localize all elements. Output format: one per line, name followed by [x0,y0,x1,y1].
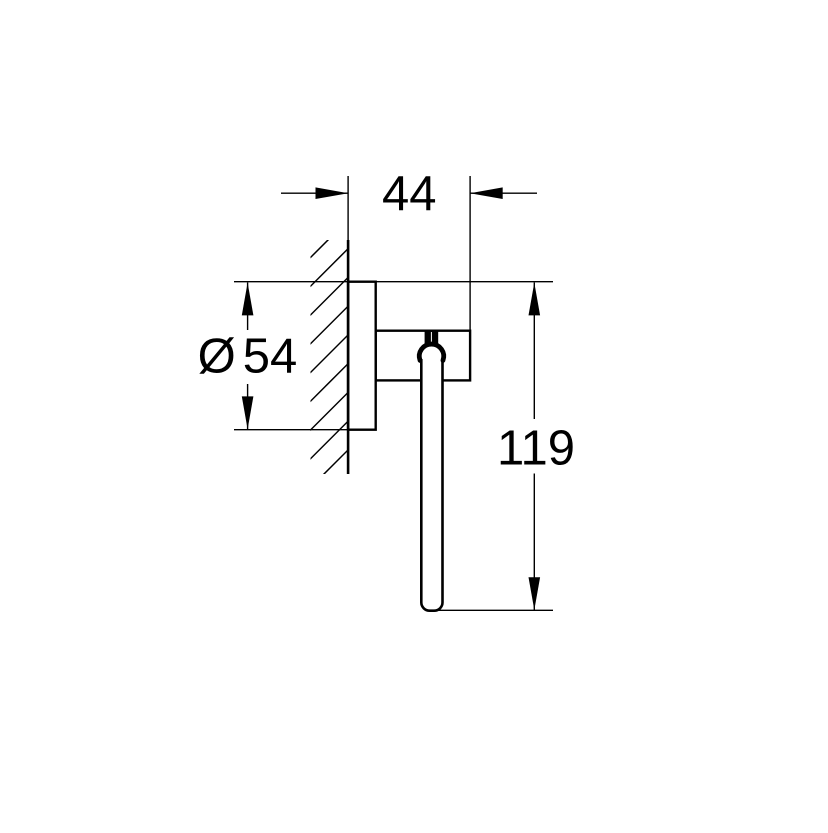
D54 down arrowhead [242,396,254,429]
44 right arrowhead [470,187,503,199]
svg-text:44: 44 [382,167,437,221]
44 left arrowhead [316,187,349,199]
119 down arrowhead [529,577,541,610]
wall line [347,240,350,474]
wire 119 dimension line lower [533,474,535,611]
wire left extension line 44 [347,176,349,243]
wall plate side view [348,282,376,430]
holder housing [376,331,470,381]
wire bottom extension line 119 [427,609,553,611]
svg-text:119: 119 [497,421,575,475]
pin slit [430,332,432,343]
ring tube [421,359,442,611]
wire bottom extension line D54 [234,429,376,431]
wire 44 right arrow line [470,192,537,194]
wire right extension line 44 [469,176,471,330]
svg-text:54: 54 [243,330,298,384]
ring hook arc [419,344,443,360]
wire 44 left arrow line [281,192,348,194]
wire 119 dimension line upper [533,283,535,420]
D54 up arrowhead [242,283,254,316]
svg-text:Ø: Ø [198,330,236,384]
wire D54 dimension line upper [247,283,249,331]
wire top extension line [234,281,553,283]
pin [425,331,439,345]
119 up arrowhead [529,283,541,316]
wire D54 dimension line lower [247,384,249,429]
